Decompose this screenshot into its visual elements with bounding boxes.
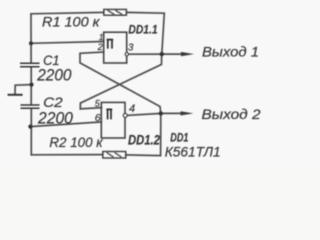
wire cross-coupling DD1.1 output to pin5 (arm A) <box>80 54 161 109</box>
wire right vertical (node 2 down to bottom) <box>126 113 161 155</box>
svg-text:DD1.2: DD1.2 <box>128 133 160 148</box>
svg-text:6: 6 <box>95 112 101 124</box>
svg-text:3: 3 <box>128 43 134 54</box>
svg-text:R2 100 к: R2 100 к <box>49 134 104 150</box>
DD1.1 output inversion bubble <box>125 53 128 56</box>
node dot rail/pin1 <box>29 41 33 45</box>
wire pin3 output to node <box>128 53 161 55</box>
op-amp gate DD1.1 body <box>104 32 127 63</box>
DD1.2 hysteresis symbol <box>106 109 112 119</box>
svg-text:Выход 1: Выход 1 <box>202 44 259 60</box>
svg-text:Выход 2: Выход 2 <box>202 106 261 122</box>
svg-text:R1 100 к: R1 100 к <box>42 14 100 29</box>
arrow head output 1 <box>181 52 194 56</box>
node dot rail/pin6 <box>28 125 32 129</box>
svg-text:2200: 2200 <box>36 67 72 85</box>
wire ground branch <box>15 85 32 95</box>
wire left rail middle segment <box>30 67 32 104</box>
arrow head output 2 <box>181 111 194 115</box>
svg-text:К561ТЛ1: К561ТЛ1 <box>165 144 221 160</box>
wire pin4 output to node <box>127 113 160 115</box>
wire left rail upper segment <box>30 14 32 63</box>
svg-text:2200: 2200 <box>37 109 74 127</box>
wire output 2 arrow line <box>161 112 183 114</box>
DD1.1 hysteresis symbol <box>107 40 114 49</box>
resistor R2 body <box>103 152 126 159</box>
svg-text:DD1.1: DD1.1 <box>128 22 157 36</box>
svg-text:1: 1 <box>99 32 104 42</box>
svg-text:C2: C2 <box>43 94 63 110</box>
op-amp gate DD1.2 body <box>101 102 125 138</box>
wire pin1 input (rail to DD1.1 pin 1) <box>31 42 104 44</box>
svg-text:4: 4 <box>129 103 135 115</box>
node dot rail/ground <box>29 83 33 87</box>
svg-text:2: 2 <box>97 42 103 52</box>
wire bottom left (R2 to rail) <box>31 154 103 156</box>
wire pin2 cross-coupling from DD1.2 output (arm B) <box>80 52 161 113</box>
resistor R1 body <box>104 9 127 15</box>
node dot output 1 <box>160 52 164 56</box>
wire pin6 input (rail to DD1.2 pin 6) <box>30 122 101 127</box>
wire pin5 input <box>80 108 101 109</box>
wire top right (R1 to corner, down to output node) <box>126 12 164 54</box>
svg-text:DD1: DD1 <box>170 130 188 144</box>
ground bar <box>8 94 23 96</box>
wire top left (rail top corner to R1) <box>31 12 104 13</box>
node dot output 2 <box>159 111 163 115</box>
wire output 1 arrow line <box>163 53 184 55</box>
wire left rail lower segment <box>30 109 32 155</box>
capacitor C1 plates <box>20 63 40 66</box>
capacitor C2 plates <box>21 105 40 108</box>
DD1.2 output inversion bubble <box>123 113 127 117</box>
